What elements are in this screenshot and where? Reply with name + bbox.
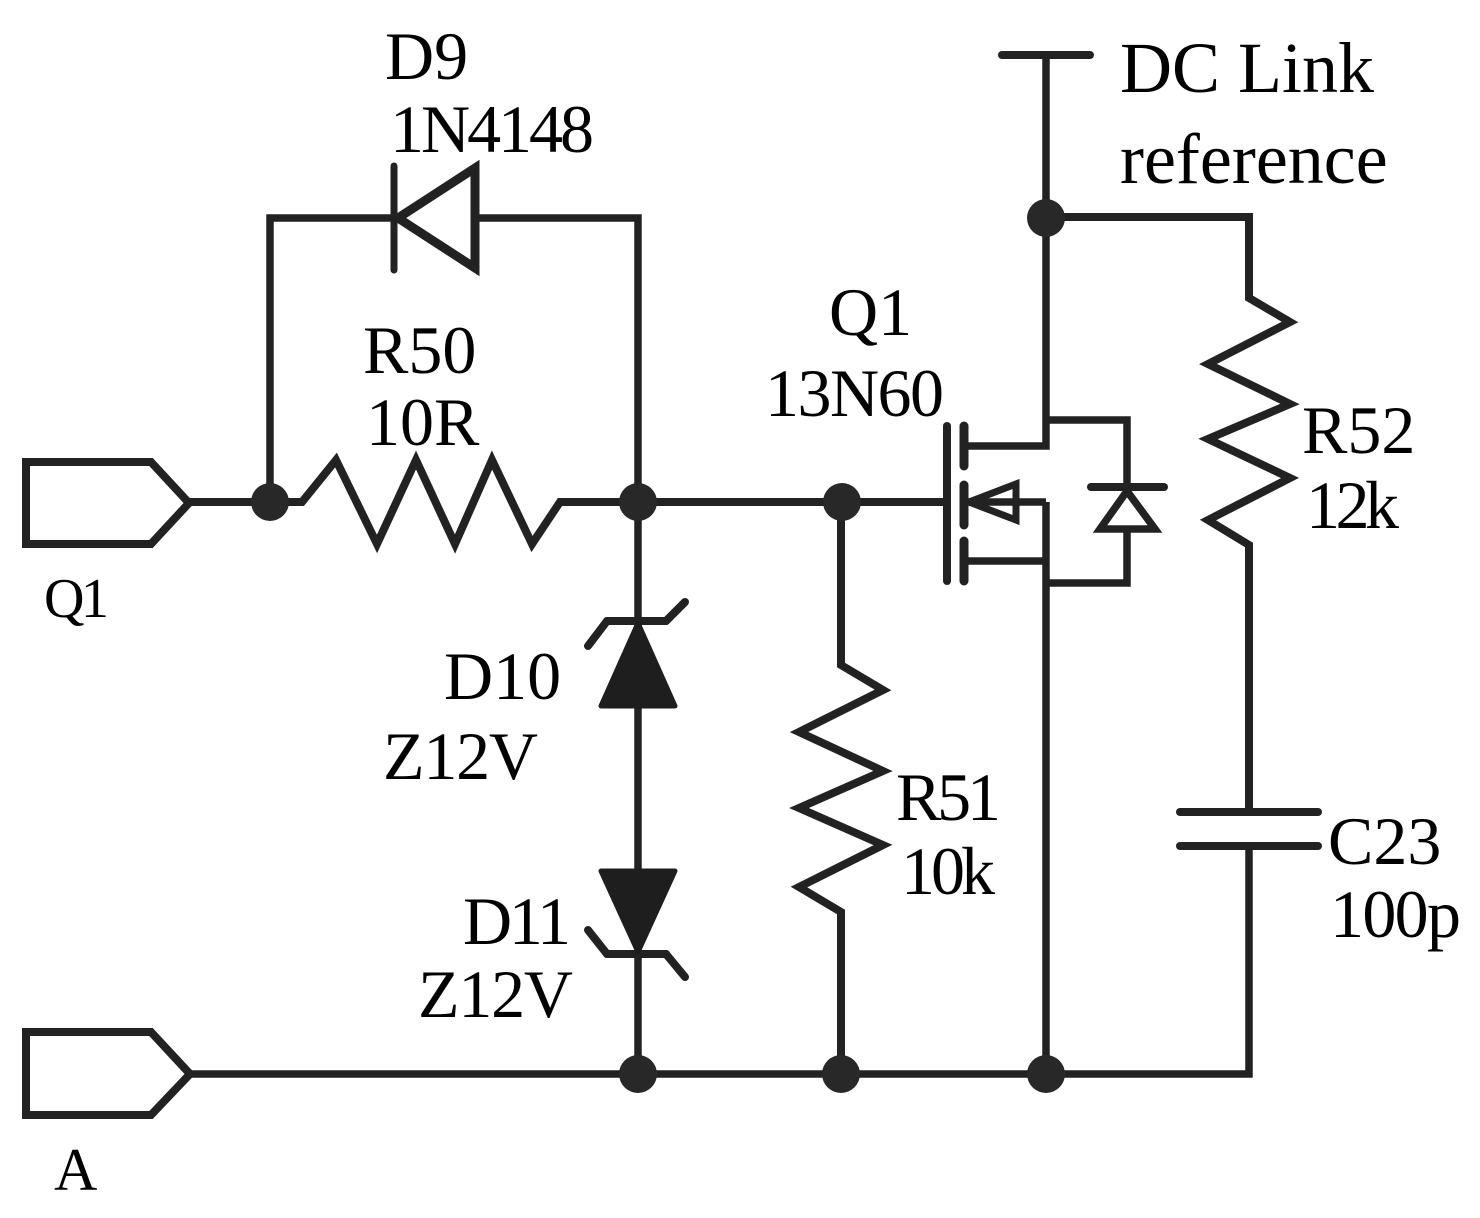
svg-text:12k: 12k (1306, 467, 1399, 543)
svg-text:reference: reference (1120, 119, 1388, 199)
svg-text:A: A (54, 1137, 97, 1203)
svg-text:Z12V: Z12V (383, 718, 538, 794)
svg-text:C23: C23 (1328, 803, 1441, 879)
svg-text:R51: R51 (896, 759, 1001, 835)
svg-text:10R: 10R (366, 384, 480, 460)
svg-text:Q1: Q1 (829, 274, 912, 350)
svg-text:Z12V: Z12V (418, 956, 573, 1032)
svg-text:R52: R52 (1302, 392, 1415, 468)
svg-text:100p: 100p (1330, 876, 1461, 952)
svg-text:R50: R50 (363, 312, 476, 388)
svg-text:13N60: 13N60 (765, 355, 944, 431)
svg-text:D10: D10 (444, 638, 561, 714)
svg-text:10k: 10k (901, 833, 995, 909)
svg-text:DC Link: DC Link (1120, 28, 1374, 108)
svg-text:Q1: Q1 (44, 568, 109, 630)
svg-text:D9: D9 (385, 18, 468, 94)
svg-text:D11: D11 (463, 883, 571, 959)
svg-text:1N4148: 1N4148 (390, 91, 594, 167)
